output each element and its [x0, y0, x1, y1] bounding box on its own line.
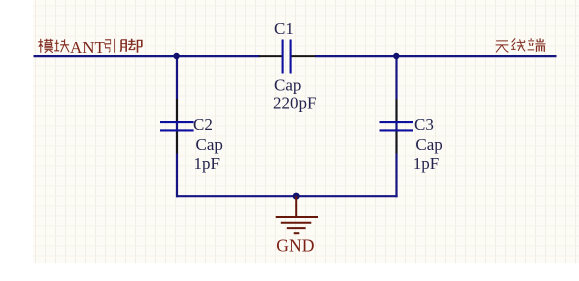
wire: top net from C1 right pin to 天线端 — [315, 55, 557, 57]
comment Cap (C2) — [196, 135, 223, 154]
wire: left vertical branch to C2 — [176, 56, 178, 197]
glyph 脚 — [120, 39, 141, 53]
capacitor C2 pins — [176, 99, 178, 154]
wire: right vertical branch to C3 — [395, 56, 397, 197]
designator C3 — [414, 115, 434, 134]
junction: bottom wire / ground stem — [293, 193, 300, 200]
glyph 线 — [511, 38, 525, 51]
glyph 块 — [54, 39, 69, 52]
comment Cap (C1) — [274, 76, 301, 95]
capacitor C2 plates — [160, 122, 194, 130]
glyph 端 — [528, 38, 546, 52]
value 1pF (C3) — [413, 154, 439, 173]
value 1pF (C2) — [194, 154, 220, 173]
net label 模块ANT引脚 (drawn strokes for CJK glyphs + ANT text) — [38, 39, 142, 53]
svg-text:Cap: Cap — [274, 76, 301, 95]
net label text ANT — [70, 38, 106, 57]
svg-text:C3: C3 — [414, 115, 434, 134]
capacitor C1 (series, horizontal) pins — [259, 55, 315, 57]
glyph 天 — [496, 41, 509, 53]
net label 天线端 (drawn strokes for CJK glyphs) — [496, 38, 546, 52]
designator C2 — [193, 115, 213, 134]
svg-text:Cap: Cap — [196, 135, 223, 154]
svg-text:Cap: Cap — [415, 135, 442, 154]
glyph 模 — [38, 39, 53, 53]
capacitor C3 pins — [396, 99, 398, 154]
junction: top wire / C2 branch — [173, 53, 180, 60]
wire: top net from 模块ANT引脚 to C1 left pin — [34, 55, 261, 57]
value 220pF (C1) — [273, 93, 316, 112]
svg-text:220pF: 220pF — [273, 93, 316, 112]
svg-text:GND: GND — [276, 235, 314, 255]
svg-text:C1: C1 — [274, 19, 294, 38]
svg-text:1pF: 1pF — [413, 154, 439, 173]
capacitor C1 plates — [283, 40, 291, 74]
junction: top wire / C3 branch — [393, 53, 400, 60]
net label GND — [276, 235, 314, 255]
svg-text:ANT: ANT — [70, 38, 106, 57]
glyph 引 — [105, 39, 114, 53]
svg-text:C2: C2 — [193, 115, 213, 134]
ground GND power port symbol — [276, 196, 318, 233]
capacitor C3 plates — [380, 122, 414, 130]
svg-text:1pF: 1pF — [194, 154, 220, 173]
comment Cap (C3) — [415, 135, 442, 154]
designator C1 — [274, 19, 294, 38]
wire: bottom net joining C2, GND, C3 — [176, 195, 398, 197]
